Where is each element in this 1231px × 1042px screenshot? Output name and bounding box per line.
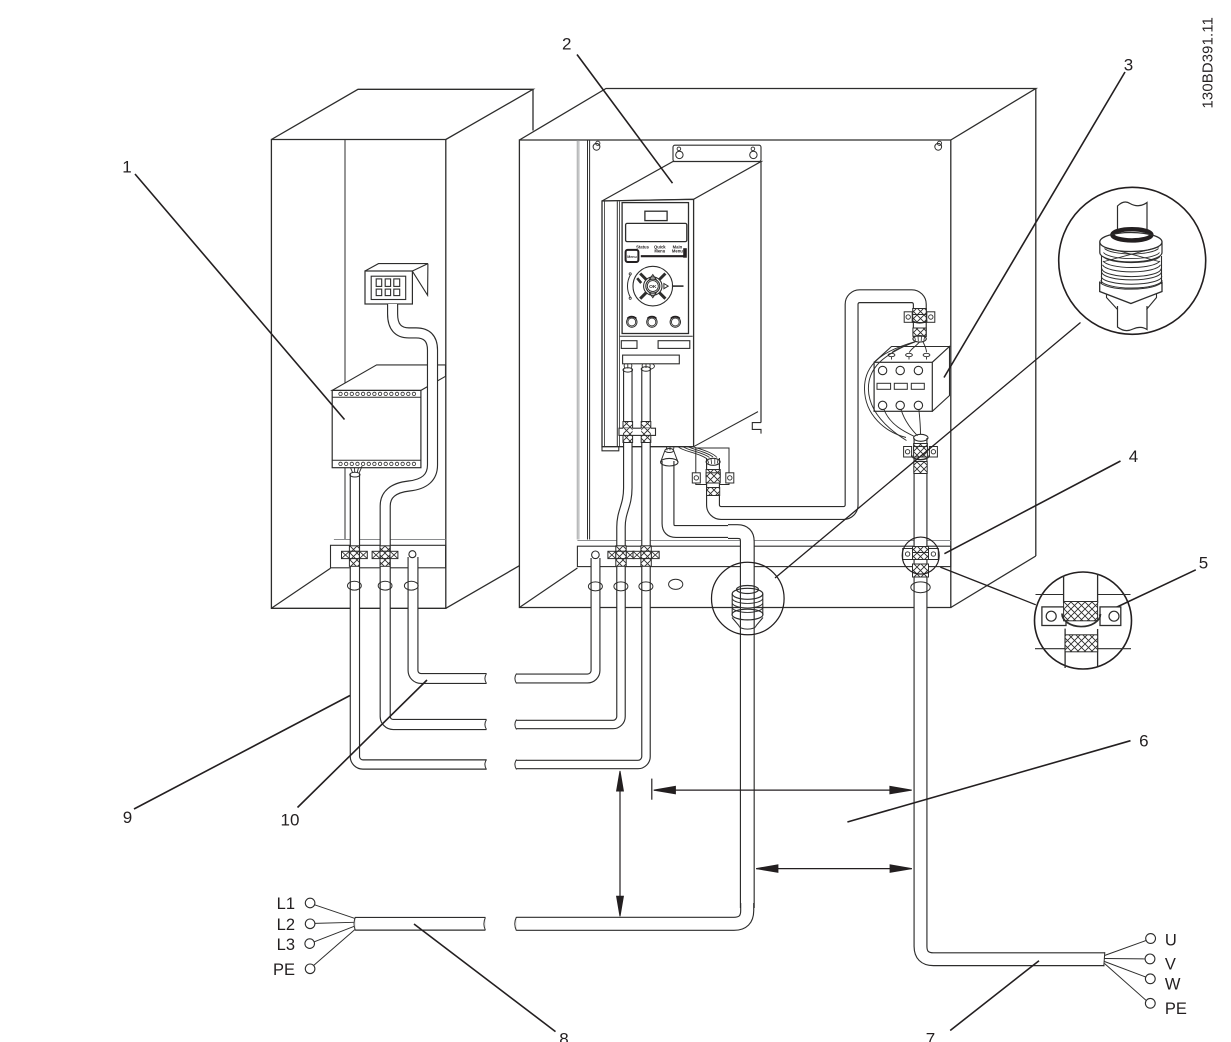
callout 2 leader: [577, 55, 673, 184]
line filter box: [332, 365, 445, 468]
label W: [1165, 975, 1181, 993]
left enclosure cabinet (3D box): [271, 89, 533, 608]
mains cable entry bell under drive: [661, 449, 678, 467]
horizontal dimension arrow (control to motor cable): [654, 786, 912, 793]
callout 7 leader: [950, 961, 1039, 1031]
svg-text:Menu: Menu: [654, 249, 665, 254]
label V: [1165, 956, 1176, 974]
LCP navigation pad: [627, 266, 683, 306]
dimension tick line: [651, 779, 653, 800]
leader from clamp circle to magnifier circle: [940, 567, 1036, 605]
magnified clamp cable lower: [1065, 629, 1098, 668]
svg-text:V: V: [1165, 956, 1176, 974]
center floor hole ellipse (cable 2): [639, 582, 653, 591]
filter cable top end: [350, 466, 362, 477]
motor cable end cut: [1104, 952, 1105, 966]
motor cable from contactor through gland plate and out: [921, 438, 1105, 959]
svg-text:L3: L3: [277, 936, 295, 954]
mains wire L2 terminal: [305, 919, 315, 929]
drive terminal wires: [624, 364, 654, 370]
label PE right: [1165, 1000, 1187, 1018]
label L2: [277, 916, 295, 934]
magnified view circle of EMC clamp: [1035, 572, 1132, 669]
center floor hole ellipse (cable 1): [614, 582, 628, 591]
callout 1 leader: [135, 174, 345, 420]
callout 8: [559, 1030, 568, 1042]
callout 5 leader: [1099, 570, 1196, 616]
left floor hole ellipse 3: [404, 581, 418, 590]
callout 5: [1199, 554, 1208, 573]
drive cable2 top end: [641, 367, 651, 371]
wires from contactor bottom to motor cable: [884, 410, 921, 437]
LCP button Auto On: [670, 317, 680, 328]
back panel screw top-left: [593, 141, 600, 150]
motor cable fan-out wires: [1105, 941, 1147, 1001]
magnified clamp plate lines: [1035, 595, 1131, 649]
magnified gland hex nut: [1100, 282, 1162, 304]
EMC clamp motor cable at plate: [903, 547, 939, 578]
center floor hole ellipse (spare cable): [588, 582, 602, 591]
keypad operator device: [365, 264, 428, 304]
shielded cable from filter box (wire run, left): [355, 474, 487, 765]
drive shielded cable 2 (to wire run level 3): [517, 368, 647, 765]
svg-text:2: 2: [562, 35, 571, 54]
LCP menu indicator bar: [641, 249, 686, 257]
magnified gland body rings: [1101, 256, 1162, 288]
mains wire PE terminal: [305, 964, 315, 974]
svg-text:1: 1: [122, 158, 131, 177]
mains cable riser through gland: [728, 532, 747, 908]
center stud ball: [592, 551, 600, 559]
svg-text:PE: PE: [1165, 1000, 1187, 1018]
svg-text:Menu: Menu: [627, 255, 636, 259]
left floor hole ellipse 2: [378, 581, 392, 590]
drive lower cover: [620, 336, 693, 348]
callout 2: [562, 35, 571, 54]
contactor front terminals top row: [878, 366, 922, 374]
svg-text:10: 10: [281, 811, 300, 830]
wires from drive into bell: [666, 447, 674, 451]
mains cable bottom run (left piece to L1 L2 L3 PE): [355, 917, 485, 931]
drive cable1 top end: [623, 368, 633, 372]
svg-text:6: 6: [1139, 732, 1148, 751]
callout 7: [926, 1030, 935, 1042]
svg-text:9: 9: [123, 808, 132, 827]
svg-text:PE: PE: [273, 961, 295, 979]
svg-text:W: W: [1165, 975, 1181, 993]
wires from drive to output cable: [678, 447, 717, 459]
label U: [1165, 932, 1177, 950]
callout 1: [122, 158, 131, 177]
contactor front terminals bottom row: [878, 401, 922, 409]
LCP display: [626, 223, 687, 241]
svg-text:5: 5: [1199, 554, 1208, 573]
drive output cable to contactor (U-shaped run): [713, 296, 920, 513]
motor wire PE terminal: [1145, 998, 1155, 1008]
EMC cable gland in gland plate: [732, 586, 763, 630]
spare grounded cable at center gland plate: [517, 558, 596, 679]
callout 3 leader: [944, 72, 1125, 378]
wire run break gap end caps: [485, 674, 517, 770]
drive mounting bar with tabs: [673, 145, 761, 161]
drive output cable top end: [706, 458, 720, 465]
drive LCP panel outline: [622, 203, 688, 334]
magnified view circle of EMC gland: [1059, 187, 1206, 334]
contactor top pin stems: [892, 357, 927, 360]
left enclosure gland plate: [331, 540, 446, 568]
label L1: [277, 895, 295, 913]
svg-text:Status: Status: [636, 244, 649, 249]
center enclosure gland plate: [577, 541, 950, 567]
callout 4: [1129, 447, 1138, 466]
svg-text:L2: L2: [277, 916, 295, 934]
motor wire U terminal: [1146, 934, 1156, 944]
magnified gland cable bottom: [1118, 306, 1148, 331]
magnified clamp strap: [1062, 614, 1101, 627]
callout 9: [123, 808, 132, 827]
center enclosure cabinet (3D box): [519, 89, 1035, 608]
callout 6: [1139, 732, 1148, 751]
EMC clamp left tube 2: [372, 546, 398, 567]
svg-text:L1: L1: [277, 895, 295, 913]
back panel screw top-right: [935, 141, 942, 150]
magnified gland upper threads: [1103, 247, 1160, 263]
magnifier circle on cable gland: [712, 562, 785, 635]
left stud ball: [409, 551, 416, 558]
magnified clamp shield braid: [1064, 602, 1098, 621]
left enclosure interior back corner line: [344, 140, 346, 540]
svg-text:U: U: [1165, 932, 1177, 950]
LCP button Hand On: [627, 317, 637, 328]
callout 4 leader: [944, 461, 1120, 554]
EMC clamp left tube 1: [342, 546, 368, 567]
contactor center rectangles: [877, 383, 924, 389]
drive body (3D): [602, 162, 761, 451]
mains wire L1 terminal: [305, 898, 315, 908]
left floor hole ellipse 1: [348, 581, 362, 590]
EMC clamp above contactor: [904, 309, 935, 337]
svg-text:7: 7: [926, 1030, 935, 1042]
svg-text:OK: OK: [649, 284, 657, 290]
center floor spare hole: [669, 579, 683, 589]
magnifier circle on motor cable clamp: [902, 537, 939, 574]
mounting plate for drive output cable clamp: [696, 448, 729, 485]
contactor top pins: [888, 353, 930, 356]
label PE left: [273, 961, 295, 979]
callout 10 leader: [298, 680, 428, 808]
PE loop wire around contactor: [864, 342, 914, 441]
contactor (3D box): [874, 347, 949, 412]
magnified gland lower cone: [1107, 294, 1157, 310]
center enclosure interior mounting rail lines: [577, 140, 589, 540]
leader from gland to magnifier circle: [775, 323, 1081, 579]
LCP logo rectangle: [645, 211, 667, 220]
callout 9 leader: [134, 696, 350, 810]
magnified gland top flange: [1100, 233, 1162, 262]
drive shielded cable 1 (motor side of filter, to wire run level 2): [517, 369, 628, 725]
motor wire W terminal: [1145, 974, 1155, 984]
magnified clamp right lug: [1100, 607, 1121, 626]
magnified clamp cable upper: [1064, 574, 1098, 604]
callout 6 leader: [847, 741, 1130, 822]
svg-text:4: 4: [1129, 447, 1138, 466]
callout 3: [1124, 56, 1133, 75]
motor cable top end at contactor: [914, 434, 928, 441]
callout 10: [281, 811, 300, 830]
LCP Menu button: [626, 250, 639, 262]
callout 8 leader: [414, 924, 556, 1032]
label L3: [277, 936, 295, 954]
EMC clamp below drive (both cables): [619, 422, 656, 443]
motor wire V terminal: [1145, 954, 1155, 964]
svg-text:8: 8: [559, 1030, 568, 1042]
mains wire L3 terminal: [305, 939, 315, 949]
contactor top cable end: [913, 336, 926, 343]
motor cable floor hole ellipse: [911, 582, 930, 593]
svg-text:Menu: Menu: [672, 249, 683, 254]
EMC clamp center tube 1: [608, 546, 634, 567]
svg-text:3: 3: [1124, 56, 1133, 75]
wires from cable to contactor pins: [892, 342, 927, 353]
mains supply cable inside enclosure (bell to gland riser): [668, 461, 730, 532]
LCP button Off Reset: [647, 317, 657, 328]
magnified clamp left lug: [1042, 607, 1066, 626]
keypad control cable (wire run, left): [385, 304, 486, 725]
mains cable break ends: [354, 917, 516, 931]
drive terminal strip: [623, 355, 680, 364]
horizontal dimension arrow (mains to motor cable): [756, 865, 912, 872]
spare grounded cable at left gland plate: [413, 557, 487, 679]
svg-text:130BD391.11: 130BD391.11: [1201, 17, 1217, 109]
LCP OK button: [646, 279, 660, 293]
vertical clearance dimension arrow: [617, 771, 624, 916]
EMC clamp below contactor: [904, 444, 938, 474]
LCP menu captions: [636, 244, 683, 253]
mains cable lower bend and bottom run (right of break): [516, 903, 747, 924]
EMC clamp center tube 2: [633, 546, 659, 567]
magnified gland shield ring: [1112, 229, 1151, 240]
mains cable fan-out wires: [314, 905, 355, 966]
magnified gland cable top: [1118, 202, 1148, 232]
part number 130BD391.11: [1201, 17, 1217, 109]
EMC clamp bracket for drive output cable: [692, 470, 734, 496]
